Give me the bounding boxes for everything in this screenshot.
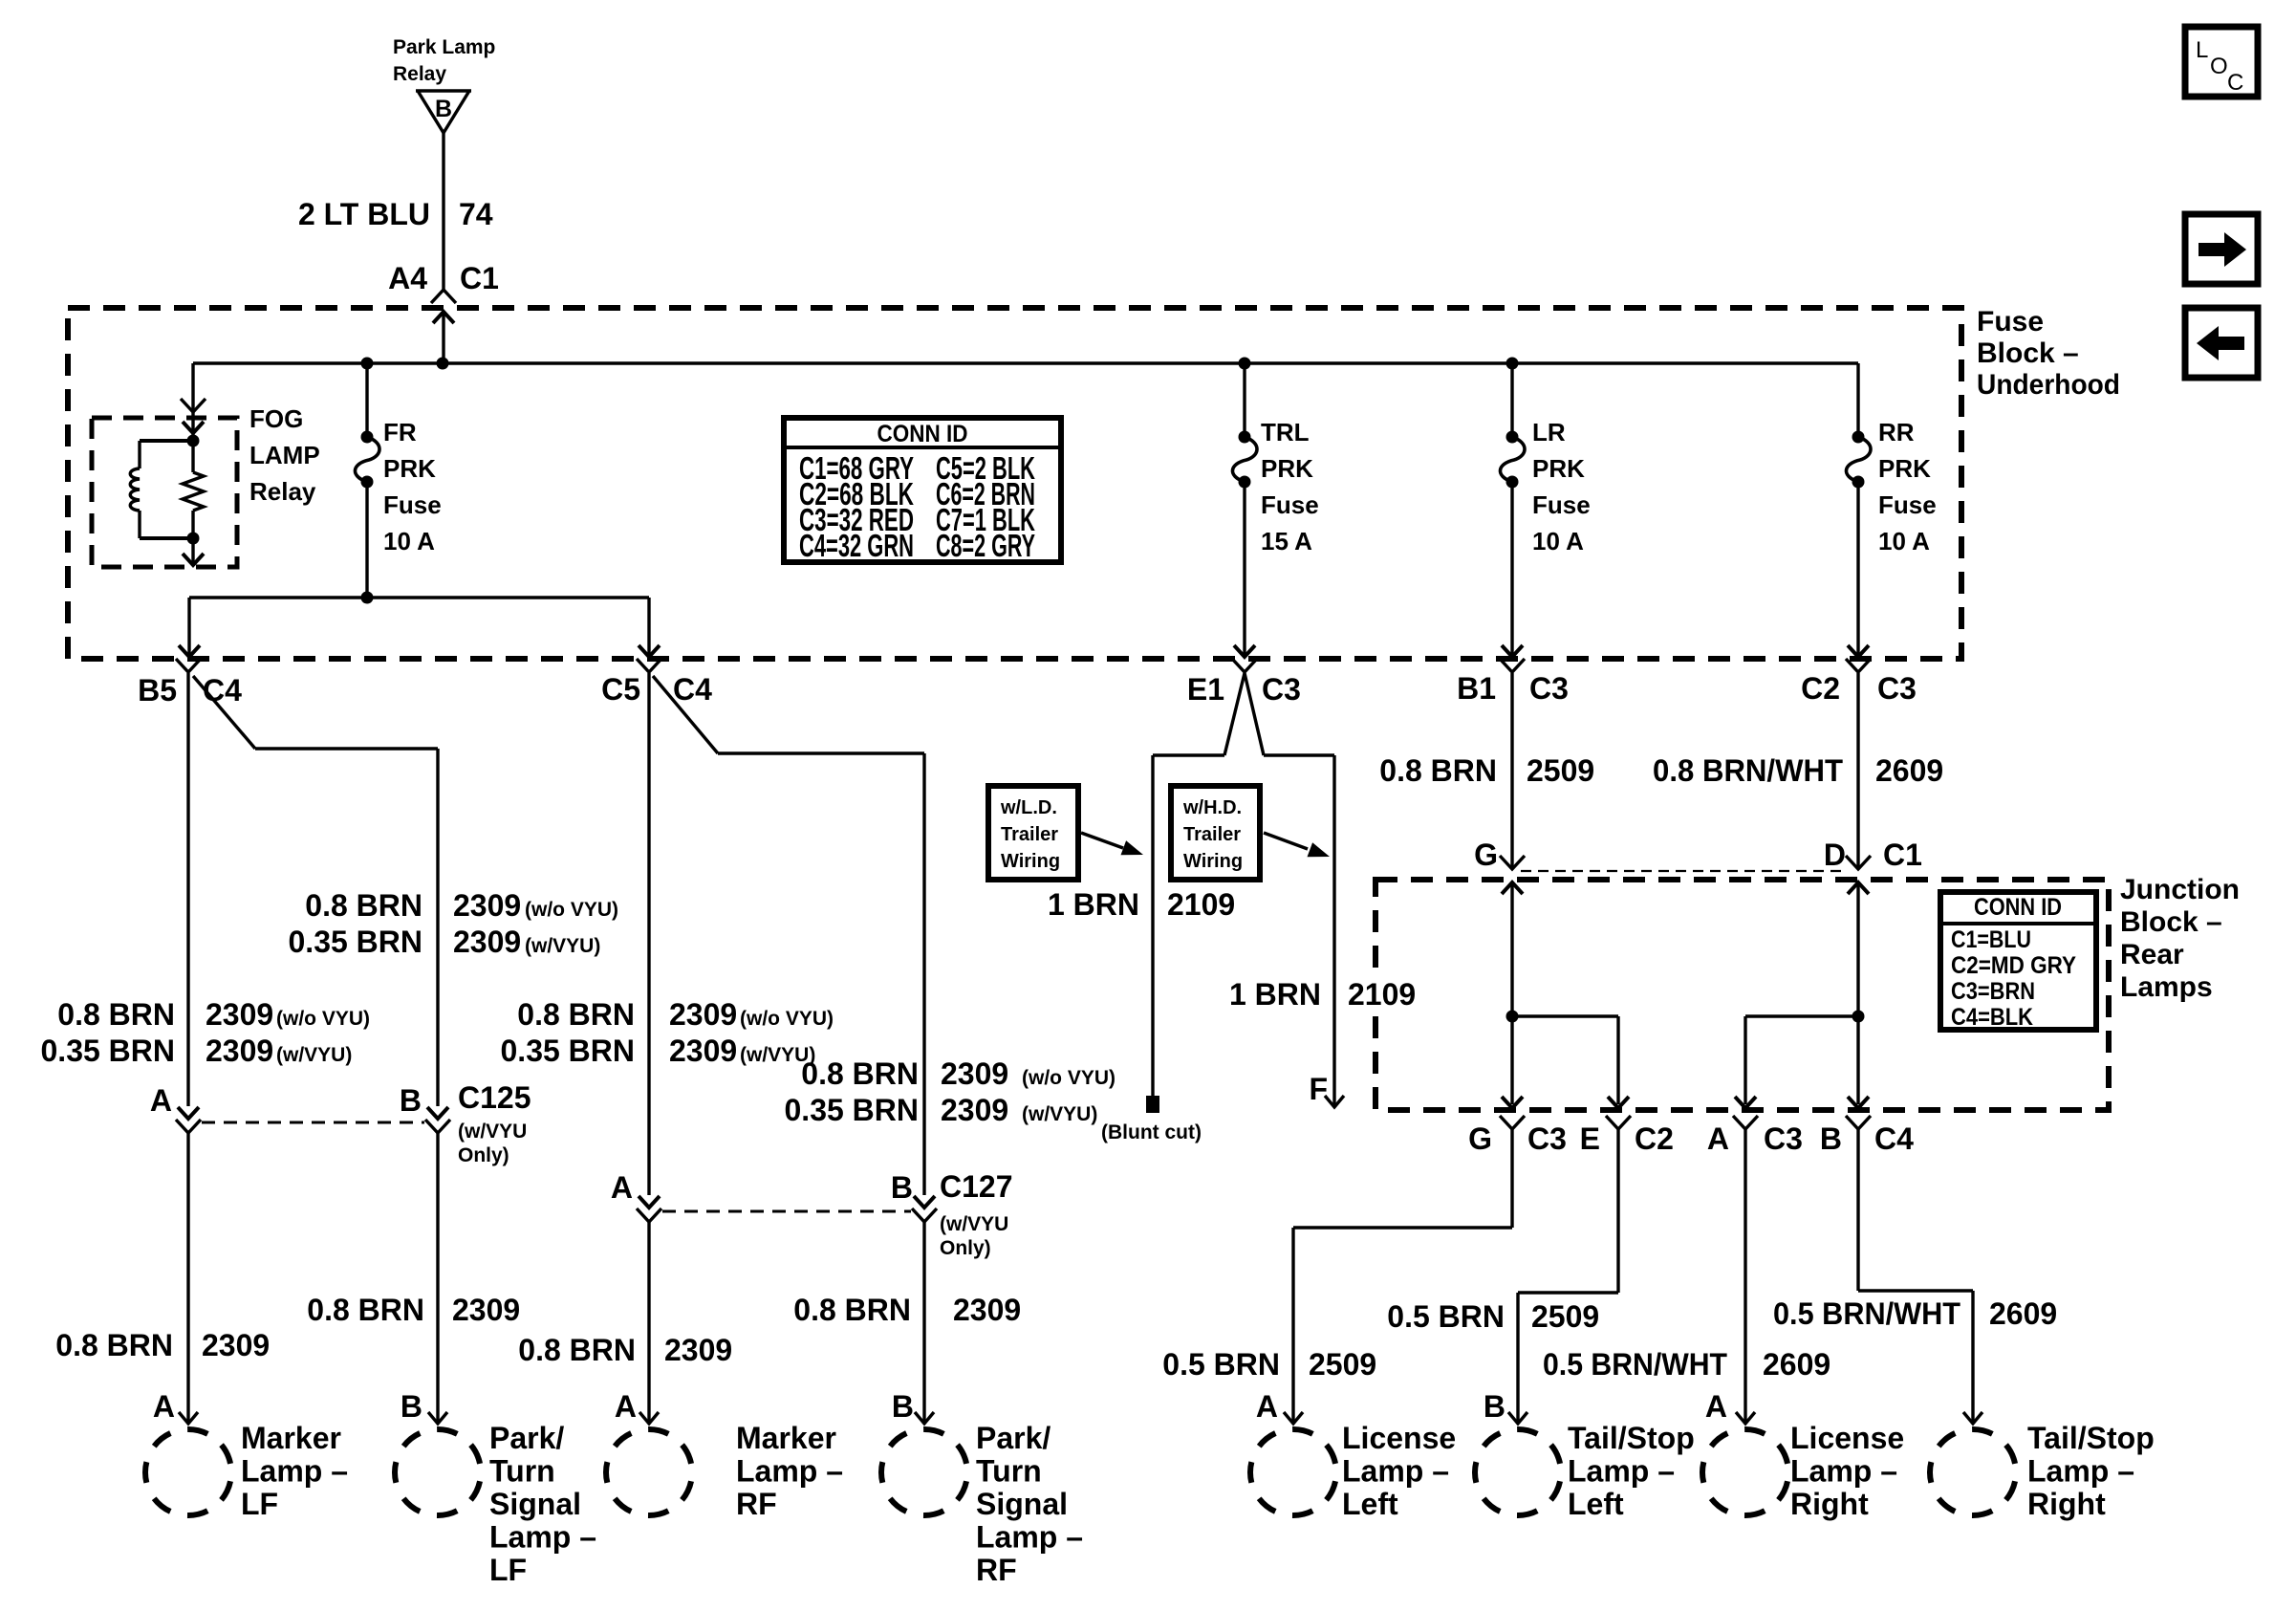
svg-text:Block –: Block – <box>1977 337 2079 369</box>
svg-text:Left: Left <box>1342 1487 1398 1521</box>
svg-text:PRK: PRK <box>1532 454 1585 483</box>
svg-text:0.5 BRN: 0.5 BRN <box>1387 1299 1505 1334</box>
svg-text:Block –: Block – <box>2120 906 2222 938</box>
svg-text:C3: C3 <box>1527 1121 1567 1156</box>
svg-text:G: G <box>1474 838 1498 872</box>
svg-text:C1: C1 <box>1883 838 1922 872</box>
svg-text:2609: 2609 <box>1763 1347 1830 1382</box>
svg-text:Marker: Marker <box>241 1421 341 1455</box>
svg-text:15 A: 15 A <box>1261 527 1312 555</box>
svg-text:A: A <box>611 1170 633 1205</box>
svg-text:C4: C4 <box>673 672 712 707</box>
svg-text:A: A <box>1256 1389 1278 1424</box>
svg-text:C1=BLU: C1=BLU <box>1951 926 2031 953</box>
svg-text:B: B <box>1484 1389 1505 1424</box>
svg-text:F: F <box>1309 1072 1328 1106</box>
svg-text:C2=MD GRY: C2=MD GRY <box>1951 952 2076 979</box>
svg-text:C3: C3 <box>1529 671 1569 706</box>
svg-text:C2: C2 <box>1801 671 1840 706</box>
svg-text:Fuse: Fuse <box>1261 490 1319 519</box>
svg-text:Signal: Signal <box>976 1487 1068 1521</box>
svg-text:10 A: 10 A <box>1878 527 1930 555</box>
svg-text:(w/VYU): (w/VYU) <box>525 935 600 957</box>
svg-text:G: G <box>1468 1121 1492 1156</box>
svg-text:B: B <box>400 1083 422 1118</box>
svg-text:0.8 BRN: 0.8 BRN <box>1379 753 1497 788</box>
svg-text:1 BRN: 1 BRN <box>1048 887 1139 922</box>
svg-text:LAMP: LAMP <box>249 441 320 469</box>
svg-text:B: B <box>891 1170 913 1205</box>
svg-text:D: D <box>1824 838 1846 872</box>
svg-text:TRL: TRL <box>1261 418 1310 446</box>
svg-text:B: B <box>892 1389 914 1424</box>
svg-text:Tail/Stop: Tail/Stop <box>2027 1421 2155 1455</box>
svg-text:C3: C3 <box>1262 672 1301 707</box>
svg-text:0.35 BRN: 0.35 BRN <box>501 1034 636 1068</box>
svg-text:C4=BLK: C4=BLK <box>1951 1004 2033 1031</box>
svg-text:2309: 2309 <box>453 888 521 923</box>
svg-text:0.35 BRN: 0.35 BRN <box>41 1034 176 1068</box>
svg-text:Lamp –: Lamp – <box>976 1520 1083 1555</box>
svg-text:Lamp –: Lamp – <box>1342 1454 1449 1489</box>
svg-text:B5: B5 <box>138 673 177 708</box>
svg-text:2309: 2309 <box>941 1056 1008 1091</box>
svg-text:2 LT BLU: 2 LT BLU <box>298 197 430 231</box>
svg-text:A: A <box>615 1389 637 1424</box>
svg-text:PRK: PRK <box>1878 454 1931 483</box>
svg-text:Wiring: Wiring <box>1183 851 1243 872</box>
svg-text:Park Lamp: Park Lamp <box>393 36 495 58</box>
svg-text:2509: 2509 <box>1309 1347 1376 1382</box>
svg-text:0.8 BRN: 0.8 BRN <box>305 888 422 923</box>
svg-text:2309: 2309 <box>669 1034 737 1068</box>
svg-text:2609: 2609 <box>1875 753 1943 788</box>
svg-text:2509: 2509 <box>1527 753 1594 788</box>
svg-text:(Blunt cut): (Blunt cut) <box>1101 1121 1202 1143</box>
svg-text:Lamps: Lamps <box>2120 971 2213 1003</box>
svg-text:Only): Only) <box>458 1144 509 1166</box>
svg-text:License: License <box>1342 1421 1456 1455</box>
svg-text:B: B <box>435 96 452 122</box>
svg-text:(w/o VYU): (w/o VYU) <box>525 899 618 921</box>
svg-text:2609: 2609 <box>1989 1296 2057 1331</box>
svg-text:Trailer: Trailer <box>1001 824 1058 845</box>
svg-text:w/H.D.: w/H.D. <box>1182 797 1242 818</box>
svg-text:0.8 BRN: 0.8 BRN <box>518 1333 636 1367</box>
svg-text:CONN ID: CONN ID <box>1974 894 2062 921</box>
svg-text:RR: RR <box>1878 418 1915 446</box>
svg-text:LF: LF <box>241 1487 278 1521</box>
svg-text:C4=32 GRN: C4=32 GRN <box>799 528 914 563</box>
svg-text:2309: 2309 <box>206 997 273 1032</box>
svg-text:E: E <box>1580 1121 1600 1156</box>
svg-text:C4: C4 <box>203 673 242 708</box>
svg-text:74: 74 <box>459 197 493 231</box>
svg-text:Wiring: Wiring <box>1001 851 1060 872</box>
svg-text:Relay: Relay <box>249 477 316 506</box>
svg-text:2109: 2109 <box>1348 977 1416 1012</box>
svg-text:Lamp –: Lamp – <box>2027 1454 2134 1489</box>
svg-text:0.5 BRN: 0.5 BRN <box>1162 1347 1280 1382</box>
svg-text:A4: A4 <box>388 261 427 295</box>
svg-text:Lamp –: Lamp – <box>1568 1454 1675 1489</box>
svg-text:C5: C5 <box>601 672 640 707</box>
svg-text:C1: C1 <box>460 261 499 295</box>
svg-text:C2: C2 <box>1635 1121 1674 1156</box>
svg-text:A: A <box>150 1083 172 1118</box>
svg-text:Fuse: Fuse <box>1532 490 1591 519</box>
svg-text:License: License <box>1790 1421 1904 1455</box>
svg-text:(w/o VYU): (w/o VYU) <box>740 1008 834 1030</box>
svg-text:Lamp –: Lamp – <box>736 1454 843 1489</box>
svg-text:2109: 2109 <box>1167 887 1235 922</box>
svg-text:LF: LF <box>489 1553 527 1587</box>
svg-text:(w/VYU): (w/VYU) <box>276 1044 352 1066</box>
svg-text:A: A <box>1705 1389 1727 1424</box>
svg-text:2309: 2309 <box>452 1293 520 1327</box>
svg-text:0.5 BRN/WHT: 0.5 BRN/WHT <box>1543 1347 1727 1382</box>
svg-text:Fuse: Fuse <box>1977 306 2044 337</box>
svg-text:2309: 2309 <box>453 925 521 959</box>
svg-text:10 A: 10 A <box>1532 527 1584 555</box>
svg-text:C3: C3 <box>1764 1121 1803 1156</box>
svg-text:Right: Right <box>2027 1487 2106 1521</box>
svg-text:Turn: Turn <box>489 1454 555 1489</box>
svg-text:Underhood: Underhood <box>1977 369 2120 401</box>
svg-text:RF: RF <box>736 1487 777 1521</box>
svg-text:2509: 2509 <box>1531 1299 1599 1334</box>
svg-text:2309: 2309 <box>202 1328 270 1362</box>
svg-text:B: B <box>1820 1121 1842 1156</box>
svg-text:C127: C127 <box>940 1169 1013 1204</box>
svg-text:0.5 BRN/WHT: 0.5 BRN/WHT <box>1773 1296 1960 1331</box>
svg-text:Park/: Park/ <box>489 1421 564 1455</box>
svg-text:0.8 BRN/WHT: 0.8 BRN/WHT <box>1653 753 1843 788</box>
svg-text:PRK: PRK <box>383 454 436 483</box>
svg-text:0.35 BRN: 0.35 BRN <box>289 925 423 959</box>
svg-text:Turn: Turn <box>976 1454 1042 1489</box>
svg-text:Junction: Junction <box>2120 874 2240 905</box>
svg-text:Trailer: Trailer <box>1183 824 1241 845</box>
svg-text:C: C <box>2227 70 2243 96</box>
svg-text:B1: B1 <box>1457 671 1496 706</box>
svg-text:(w/VYU: (w/VYU <box>458 1121 527 1143</box>
svg-text:2309: 2309 <box>941 1093 1008 1127</box>
svg-text:FR: FR <box>383 418 417 446</box>
svg-text:Left: Left <box>1568 1487 1624 1521</box>
svg-text:Marker: Marker <box>736 1421 836 1455</box>
svg-text:C125: C125 <box>458 1080 531 1115</box>
svg-text:Only): Only) <box>940 1237 991 1259</box>
svg-text:RF: RF <box>976 1553 1017 1587</box>
svg-text:2309: 2309 <box>664 1333 732 1367</box>
svg-text:0.8 BRN: 0.8 BRN <box>57 997 175 1032</box>
svg-text:0.8 BRN: 0.8 BRN <box>801 1056 919 1091</box>
svg-text:10 A: 10 A <box>383 527 435 555</box>
svg-text:Rear: Rear <box>2120 939 2184 970</box>
svg-text:L: L <box>2196 37 2208 63</box>
svg-text:(w/o VYU): (w/o VYU) <box>1022 1067 1116 1089</box>
svg-text:Fuse: Fuse <box>1878 490 1937 519</box>
svg-text:Relay: Relay <box>393 63 446 85</box>
svg-text:Lamp –: Lamp – <box>489 1520 596 1555</box>
svg-text:2309: 2309 <box>669 997 737 1032</box>
svg-text:FOG: FOG <box>249 404 303 433</box>
svg-text:A: A <box>153 1389 175 1424</box>
svg-text:(w/o VYU): (w/o VYU) <box>276 1008 370 1030</box>
svg-text:B: B <box>401 1389 422 1424</box>
svg-text:1 BRN: 1 BRN <box>1229 977 1321 1012</box>
svg-text:0.8 BRN: 0.8 BRN <box>517 997 635 1032</box>
svg-text:LR: LR <box>1532 418 1566 446</box>
svg-text:Fuse: Fuse <box>383 490 442 519</box>
svg-text:Tail/Stop: Tail/Stop <box>1568 1421 1695 1455</box>
svg-text:C8=2 GRY: C8=2 GRY <box>936 528 1035 563</box>
svg-text:0.8 BRN: 0.8 BRN <box>307 1293 424 1327</box>
svg-text:(w/VYU): (w/VYU) <box>1022 1103 1097 1125</box>
svg-text:2309: 2309 <box>206 1034 273 1068</box>
svg-text:w/L.D.: w/L.D. <box>1000 797 1057 818</box>
svg-text:0.35 BRN: 0.35 BRN <box>785 1093 920 1127</box>
svg-text:0.8 BRN: 0.8 BRN <box>793 1293 911 1327</box>
svg-text:(w/VYU: (w/VYU <box>940 1213 1008 1235</box>
svg-text:2309: 2309 <box>953 1293 1021 1327</box>
svg-text:E1: E1 <box>1187 672 1224 707</box>
svg-text:Park/: Park/ <box>976 1421 1051 1455</box>
svg-text:0.8 BRN: 0.8 BRN <box>55 1328 173 1362</box>
svg-text:Right: Right <box>1790 1487 1869 1521</box>
svg-text:C4: C4 <box>1874 1121 1914 1156</box>
svg-text:A: A <box>1707 1121 1729 1156</box>
svg-text:C3=BRN: C3=BRN <box>1951 978 2035 1005</box>
svg-text:PRK: PRK <box>1261 454 1313 483</box>
svg-text:O: O <box>2210 54 2228 79</box>
svg-text:C3: C3 <box>1877 671 1917 706</box>
svg-text:Lamp –: Lamp – <box>241 1454 348 1489</box>
svg-text:Signal: Signal <box>489 1487 581 1521</box>
svg-text:CONN ID: CONN ID <box>877 421 968 447</box>
svg-text:Lamp –: Lamp – <box>1790 1454 1897 1489</box>
